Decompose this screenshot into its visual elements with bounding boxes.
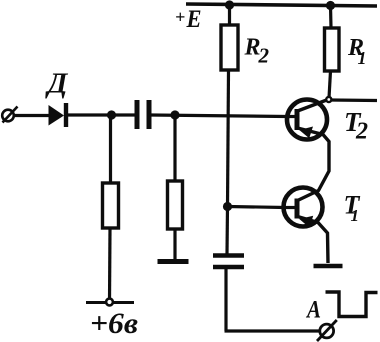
svg-text:E: E xyxy=(186,6,202,33)
svg-text:1: 1 xyxy=(358,48,367,68)
svg-text:2: 2 xyxy=(355,119,368,145)
svg-text:A: A xyxy=(305,297,321,324)
svg-text:+: + xyxy=(175,7,185,27)
svg-text:Д: Д xyxy=(45,68,69,100)
svg-text:+6в: +6в xyxy=(90,307,138,340)
svg-text:1: 1 xyxy=(351,206,360,225)
svg-text:2: 2 xyxy=(258,44,270,68)
